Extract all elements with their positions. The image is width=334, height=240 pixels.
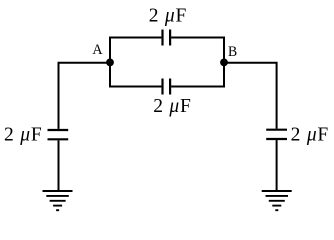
svg-text:2 μF: 2 μF: [291, 124, 329, 145]
svg-text:2 μF: 2 μF: [149, 6, 187, 27]
svg-text:A: A: [92, 42, 102, 58]
svg-text:2 μF: 2 μF: [153, 96, 191, 117]
svg-text:2 μF: 2 μF: [4, 125, 42, 146]
svg-text:B: B: [228, 44, 237, 60]
